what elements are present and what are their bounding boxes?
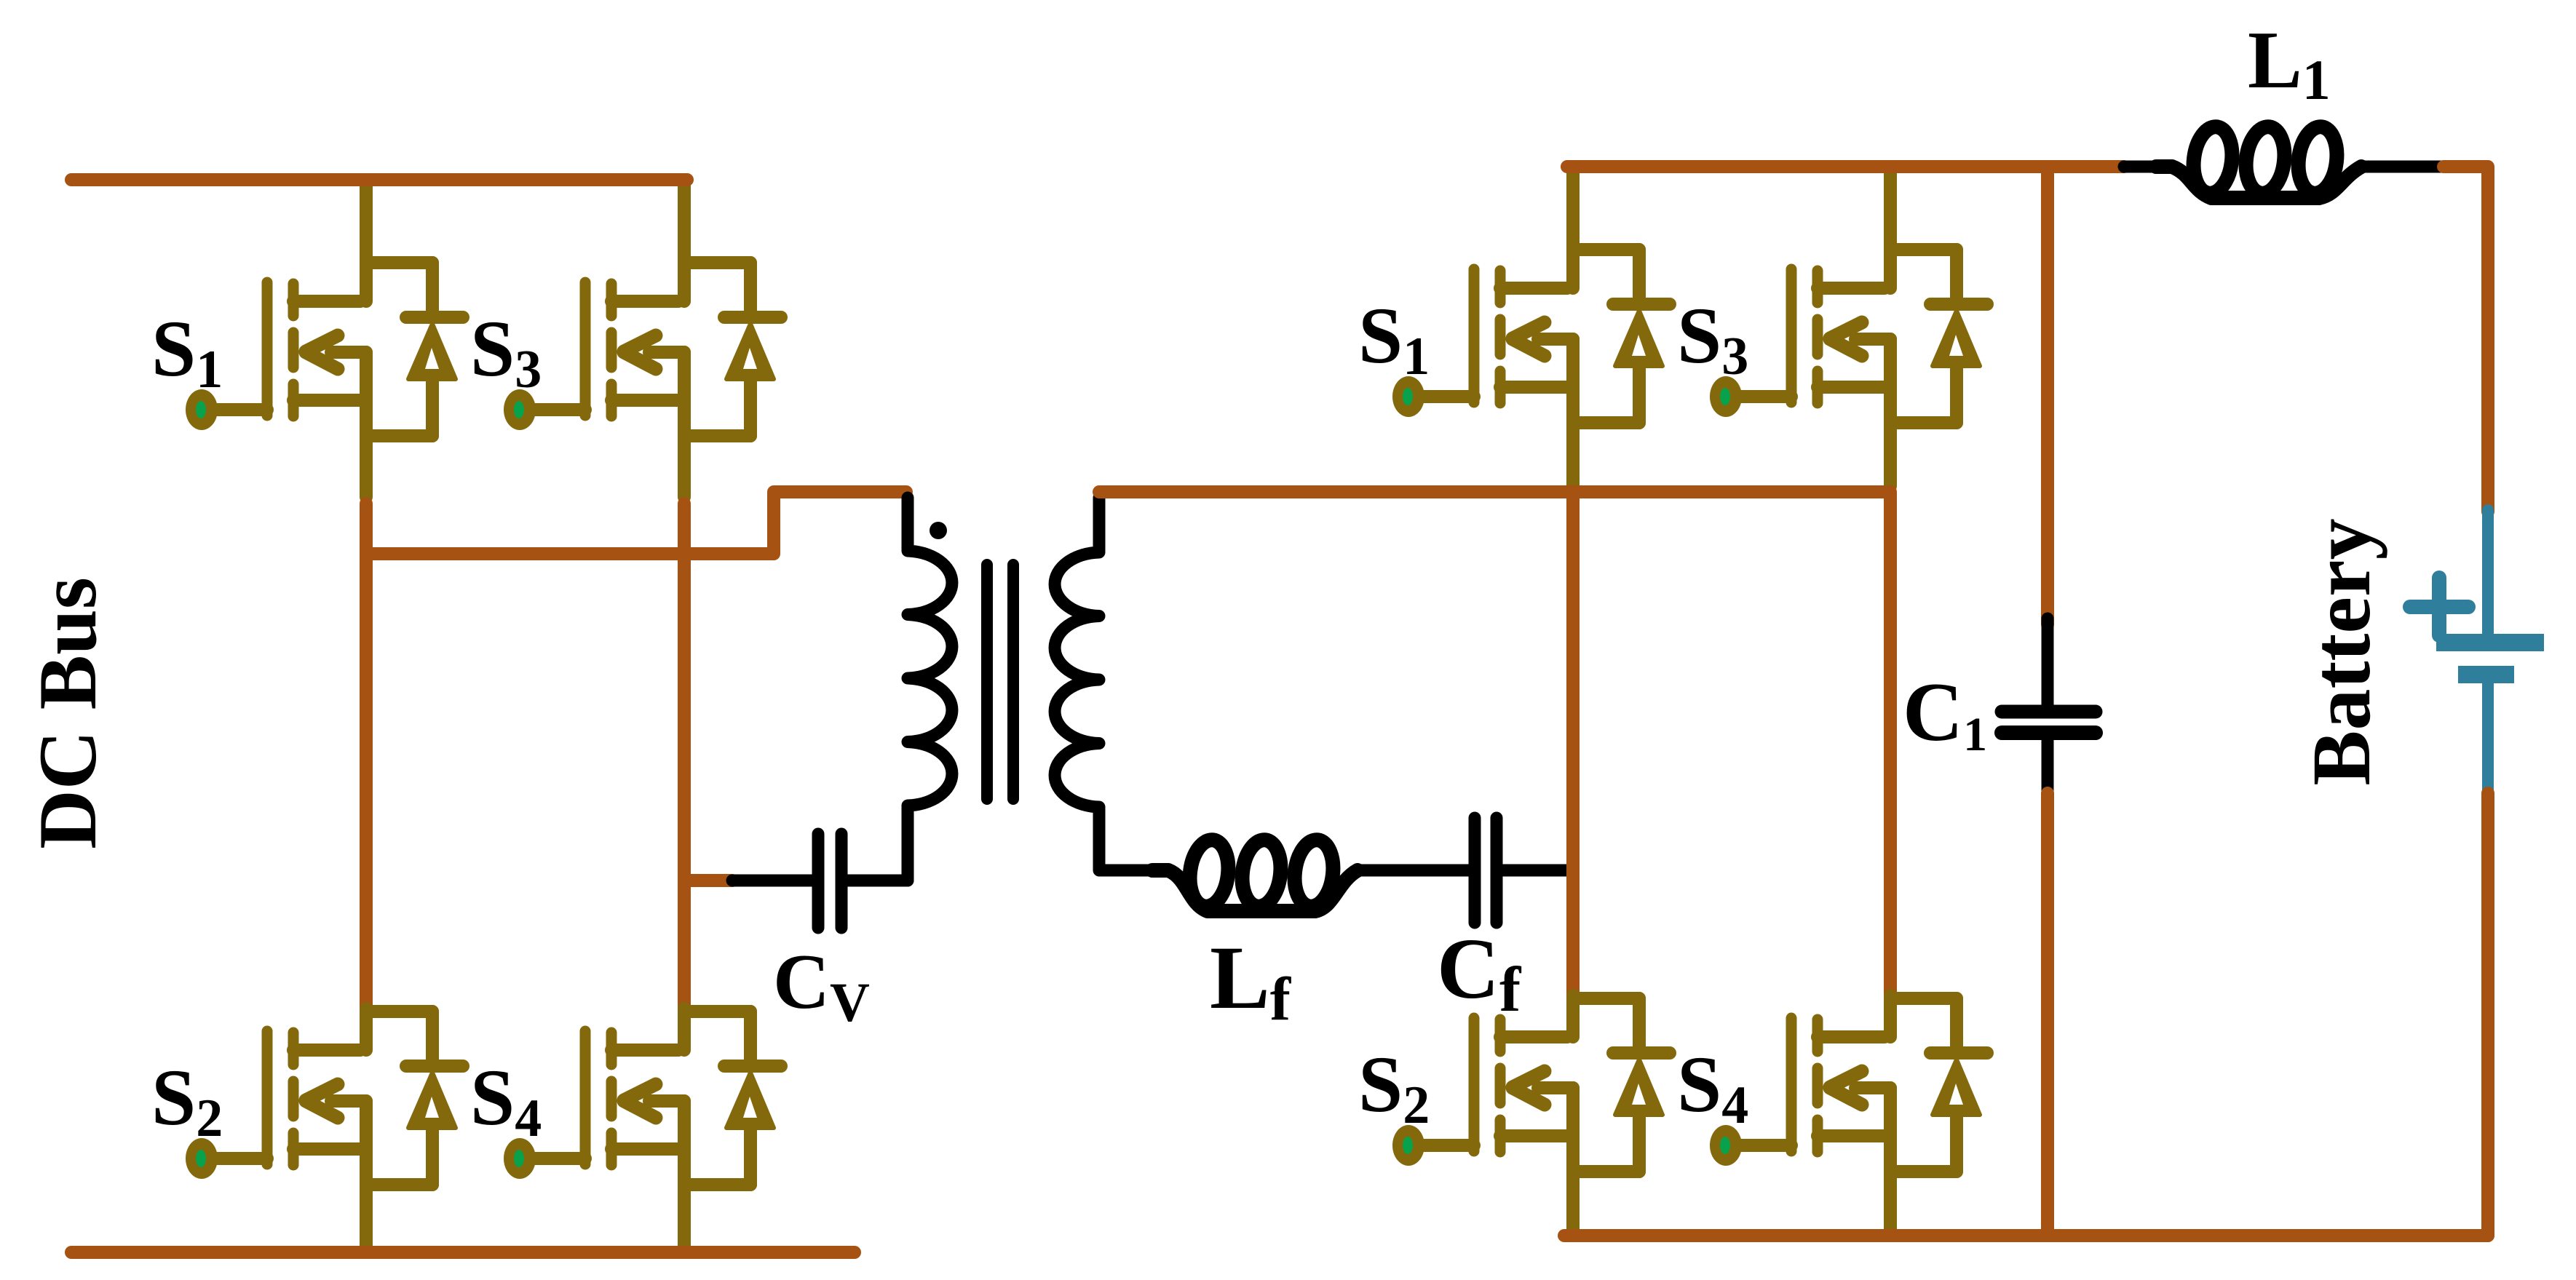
capacitor Cf right lead [1501, 864, 1566, 877]
svg-text:CV: CV [773, 939, 870, 1033]
transformer T1 secondary winding [1055, 498, 1157, 870]
capacitor C1 top lead [2042, 619, 2054, 707]
inductor Lf right lead [1360, 864, 1469, 877]
capacitor C1 bottom lead [2042, 739, 2054, 798]
wire: S4 source to bottom bus [678, 1183, 691, 1247]
svg-text:Battery: Battery [2295, 518, 2387, 785]
wire: right S4 source to bottom bus [1884, 1170, 1897, 1231]
transformer T1 primary winding [841, 498, 952, 881]
svg-text:S1: S1 [1358, 291, 1430, 386]
MOSFET S3 (left bridge top-right) [504, 260, 781, 439]
capacitor Cv plates [812, 834, 825, 928]
svg-text:Lf: Lf [1210, 928, 1292, 1033]
MOSFET S4 (left bridge bottom-right) [504, 1009, 781, 1188]
wire: S3 source olive segment [678, 434, 691, 497]
wire: right leg1 drain (S1 top) [1566, 167, 1580, 253]
svg-text:DC Bus: DC Bus [23, 577, 114, 849]
wire: left DC bus bottom rail [71, 1246, 855, 1259]
svg-text:S1: S1 [151, 304, 223, 399]
svg-text:S2: S2 [151, 1053, 223, 1148]
wire: transformer secondary to right bridge (mid wire) [1099, 492, 1890, 1000]
battery long plate [2436, 634, 2544, 651]
svg-text:S3: S3 [470, 304, 542, 399]
wire: C1 branch upper (orange) [2041, 167, 2054, 624]
svg-text:C1: C1 [1903, 666, 1987, 761]
wire: left bridge leg1 drain (S1 top) [360, 180, 373, 266]
MOSFET S3 (right bridge top-right) [1710, 247, 1987, 426]
wire: S2 source to bottom bus [360, 1183, 373, 1247]
battery positive lead (teal) [2482, 510, 2494, 635]
wire: right S3 source olive segment [1884, 421, 1897, 486]
wire: tap from leg2 to capacitor Cv [684, 874, 732, 887]
svg-text:S4: S4 [470, 1053, 542, 1148]
wire: battery to bottom bus [2481, 793, 2494, 1236]
wire: right DC bus bottom rail [1564, 1229, 2488, 1242]
inductor Lf coil [1152, 870, 1358, 911]
wire: left DC bus top rail [71, 173, 687, 186]
battery short plate [2458, 666, 2514, 683]
wire: right leg2 drain (S3 top) [1884, 167, 1897, 253]
transformer polarity dot [930, 522, 947, 539]
MOSFET S4 (right bridge bottom-right) [1710, 995, 1987, 1174]
capacitor Cv right lead [846, 875, 908, 887]
wire: right S1 source olive segment [1566, 421, 1580, 486]
MOSFET S2 (right bridge bottom-left) [1392, 995, 1670, 1174]
battery plus sign [2410, 600, 2468, 614]
wire: right DC bus top rail [1567, 160, 2124, 173]
inductor L1 left lead [2124, 161, 2165, 173]
wire: left bridge leg2 drain (S3 top) [678, 180, 691, 266]
wire: left leg2 midpoint (node B) [678, 504, 691, 1013]
wire: left bridge output to transformer (mid wire + up jog) [368, 492, 906, 554]
battery negative lead (teal) [2482, 682, 2494, 798]
wire: left leg1 midpoint (node A) [360, 504, 373, 1013]
svg-text:S3: S3 [1677, 291, 1748, 386]
wire: right S2 source to bottom bus [1566, 1170, 1580, 1231]
MOSFET S2 (left bridge bottom-left) [186, 1009, 463, 1188]
svg-text:Cf: Cf [1437, 921, 1522, 1025]
wire: L1 to battery (orange corner) [2444, 167, 2488, 512]
svg-text:S2: S2 [1358, 1040, 1430, 1135]
MOSFET S1 (right bridge top-left) [1392, 247, 1670, 426]
transformer T1 core bars [981, 565, 993, 799]
svg-text:S4: S4 [1677, 1040, 1748, 1135]
wire: right leg1 midpoint [1566, 492, 1580, 1000]
wire: S1 source olive segment [360, 434, 373, 497]
capacitor Cf plates [1469, 818, 1481, 923]
inductor L1 coil [2156, 167, 2361, 198]
svg-text:L1: L1 [2248, 15, 2331, 111]
capacitor C1 plates [2002, 705, 2096, 719]
inductor L1 right lead [2365, 161, 2446, 173]
capacitor Cv left lead [732, 875, 814, 887]
wire: C1 branch lower (orange) [2041, 793, 2054, 1236]
MOSFET S1 (left bridge top-left) [186, 260, 463, 439]
